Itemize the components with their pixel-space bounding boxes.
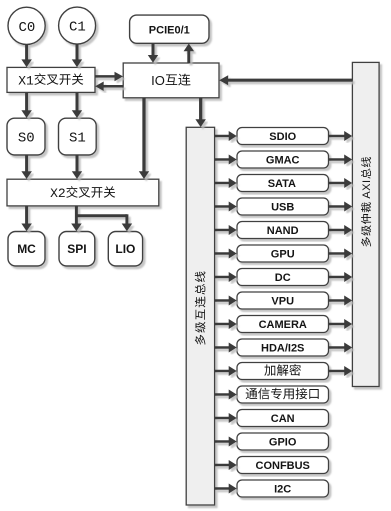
wire bus to DC [215, 272, 237, 282]
wire PCIE to IO [148, 43, 158, 63]
peripheral NAND [237, 222, 329, 239]
svg-text:CAMERA: CAMERA [259, 319, 307, 331]
peripheral CAN [237, 410, 329, 427]
svg-text:S0: S0 [18, 131, 35, 147]
peripheral GMAC [237, 151, 329, 168]
svg-text:C0: C0 [19, 20, 36, 36]
wire bus to CAN [215, 413, 237, 423]
wire GMAC to AXI bus [329, 155, 353, 165]
wire X1 to S0 [21, 92, 32, 118]
wire bus to CAMERA [215, 319, 237, 329]
block IO interconnect [123, 63, 219, 98]
peripheral CAMERA [237, 316, 329, 333]
wire X2 to SPI [71, 206, 82, 232]
peripheral GPIO [237, 433, 329, 450]
wire bus to 通信专用接口 [215, 390, 237, 400]
svg-text:HDA/I2S: HDA/I2S [261, 343, 304, 355]
svg-text:C1: C1 [69, 20, 86, 36]
wire SATA to AXI bus [329, 178, 353, 188]
svg-text:GPIO: GPIO [269, 437, 297, 449]
peripheral CONFBUS [237, 457, 329, 474]
block X2 crossbar switch [7, 179, 159, 206]
wire C0 to X1 [21, 44, 32, 67]
wire bus to GMAC [215, 155, 237, 165]
block S1 [59, 118, 97, 155]
svg-text:GMAC: GMAC [266, 155, 300, 167]
wire DC to AXI bus [329, 272, 353, 282]
wire S0 to X2 [21, 155, 32, 179]
svg-text:DC: DC [275, 272, 291, 284]
core C0 [8, 7, 45, 44]
block S0 [7, 118, 45, 155]
wire NAND to AXI bus [329, 225, 353, 235]
wire CAMERA to AXI bus [329, 319, 353, 329]
peripheral SATA [237, 175, 329, 192]
wire bus to VPU [215, 296, 237, 306]
wire bus to CONFBUS [215, 460, 237, 470]
wire X1 to IO [95, 72, 123, 82]
wire bus to HDA/I2S [215, 343, 237, 353]
wire USB to AXI bus [329, 202, 353, 212]
bus bar: multi-level interconnect bus [186, 127, 214, 505]
wire GPU to AXI bus [329, 249, 353, 259]
svg-text:SDIO: SDIO [269, 131, 296, 143]
core C1 [59, 7, 96, 44]
svg-text:SPI: SPI [67, 242, 86, 256]
wire 加解密 to AXI bus [329, 366, 353, 376]
wire X1 to S1 [72, 92, 82, 118]
svg-text:I2C: I2C [274, 484, 291, 496]
wire bus to SDIO [215, 131, 237, 141]
peripheral I2C [237, 480, 329, 497]
svg-text:IO: IO [151, 73, 165, 88]
svg-text:GPU: GPU [271, 249, 295, 261]
peripheral DC [237, 269, 329, 286]
wire IO to X1 [95, 82, 123, 92]
block SPI [59, 232, 95, 267]
svg-text:NAND: NAND [267, 225, 299, 237]
wire bus to I2C [215, 484, 237, 494]
svg-text:MC: MC [17, 242, 36, 256]
wire bus to GPIO [215, 437, 237, 447]
peripheral 加解密 [237, 363, 329, 380]
peripheral USB [237, 198, 329, 215]
wire IO to PCIE [184, 44, 195, 64]
wire AXI bus to IO [219, 75, 352, 85]
svg-text:SATA: SATA [268, 178, 296, 190]
bus bar: multi-level arbitration AXI bus [352, 62, 379, 386]
peripheral GPU [237, 245, 329, 262]
block X1 crossbar switch [7, 67, 95, 92]
wire IO to interconnect bus [195, 98, 206, 128]
wire X2 to MC [21, 206, 32, 232]
wire VPU to AXI bus [329, 296, 353, 306]
svg-text:AXI: AXI [361, 179, 373, 201]
wire SDIO to AXI bus [329, 131, 353, 141]
wire bus to GPU [215, 249, 237, 259]
svg-text:S1: S1 [69, 131, 86, 147]
wire HDA/I2S to AXI bus [329, 343, 353, 353]
wire bus to NAND [215, 225, 237, 235]
wire S1 to X2 [72, 155, 82, 179]
wire bus to USB [215, 202, 237, 212]
wire C1 to X1 [72, 44, 82, 67]
svg-text:X2: X2 [50, 186, 66, 201]
svg-text:CAN: CAN [271, 413, 295, 425]
block MC [8, 232, 45, 267]
block PCIE0/1 [130, 15, 209, 43]
peripheral HDA/I2S [237, 339, 329, 356]
wire branch to LIO [76, 214, 132, 231]
wire IO to X2 [139, 98, 149, 179]
peripheral VPU [237, 292, 329, 309]
wire bus to SATA [215, 178, 237, 188]
svg-text:PCIE0/1: PCIE0/1 [149, 24, 190, 36]
svg-text:LIO: LIO [115, 242, 135, 256]
svg-text:X1: X1 [18, 73, 34, 88]
wire bus to 加解密 [215, 366, 237, 376]
peripheral SDIO [237, 128, 329, 145]
svg-text:VPU: VPU [271, 296, 294, 308]
peripheral 通信专用接口 [237, 386, 329, 403]
block LIO [108, 232, 142, 267]
svg-text:CONFBUS: CONFBUS [256, 460, 310, 472]
svg-text:USB: USB [271, 202, 294, 214]
